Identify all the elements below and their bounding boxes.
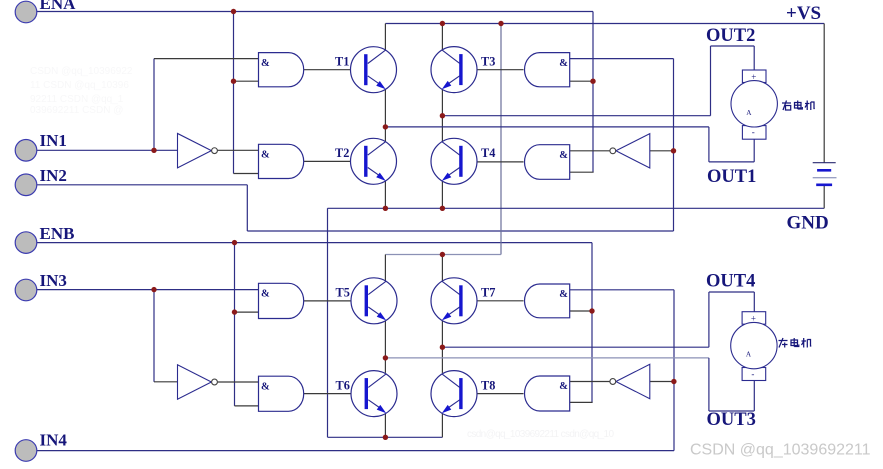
wire IN4 horizontal bbox=[37, 450, 675, 452]
wire OUT3 bottom jog bbox=[709, 410, 754, 412]
transistor T4 (NPN) bbox=[431, 138, 477, 184]
motor M1 (right motor) terminal - box bbox=[742, 126, 766, 140]
label M1 right-motor (Chinese characters) bbox=[782, 101, 815, 111]
battery VS plate 4 (short thick) bbox=[816, 184, 832, 187]
wire inverter V4 input stub bbox=[650, 381, 674, 383]
wire T6 emitter leg bbox=[384, 414, 386, 438]
junction ENB at gate U5 input bbox=[232, 309, 237, 314]
svg-text:IN1: IN1 bbox=[40, 131, 67, 150]
AND gate U2 bbox=[259, 144, 304, 178]
wire IN3 to inverter V3 input bbox=[154, 381, 178, 383]
wire gate U8 output to T8 base bbox=[461, 393, 524, 395]
svg-text:+VS: +VS bbox=[786, 3, 821, 24]
svg-text:IN3: IN3 bbox=[40, 271, 67, 290]
svg-text:&: & bbox=[559, 289, 568, 300]
input terminal IN3 bbox=[15, 279, 37, 301]
wire IN1 to gate U1 upper input bbox=[154, 58, 259, 60]
battery VS plate 1 (long) bbox=[813, 162, 836, 164]
svg-text:csdn@qq_1039692211 csdn@qq_10: csdn@qq_1039692211 csdn@qq_10 bbox=[467, 429, 614, 440]
wire IN2 to gate U3 upper input bbox=[570, 58, 674, 60]
svg-text:T4: T4 bbox=[481, 146, 495, 160]
transistor T6 (NPN) bbox=[351, 371, 397, 417]
AND gate U4 bbox=[525, 145, 570, 180]
wire inverter V4 output to gate U8 upper input bbox=[570, 381, 611, 383]
wire IN2 riser x=673.5 bbox=[673, 59, 675, 231]
svg-text:GND: GND bbox=[787, 212, 829, 233]
faint watermark upper-left bbox=[30, 66, 133, 116]
inverter V1 bbox=[178, 133, 218, 167]
wire bridge B ground rail y=437.3 bbox=[328, 436, 443, 438]
transistor T1 (NPN) bbox=[351, 47, 397, 93]
wire battery minus to GND rail bbox=[823, 185, 825, 209]
wire ENB turn into gate U8 lower input bbox=[570, 401, 593, 403]
wire GND rail y=208.3 bbox=[328, 207, 825, 209]
wire T2 emitter leg bbox=[384, 181, 386, 208]
junction T3 collector on +VS rail bbox=[440, 21, 445, 26]
wire node OUT3 column (T5 emitter to T6 collector) bbox=[384, 321, 386, 373]
input terminal ENA bbox=[15, 1, 37, 23]
svg-text:&: & bbox=[559, 58, 568, 69]
wire OUT3 drop bbox=[708, 358, 710, 411]
wire inverter V2 output to gate U4 upper input bbox=[570, 150, 611, 152]
junction T7 collector on bridge B rail bbox=[440, 252, 445, 257]
junction ENA tap bbox=[231, 9, 236, 14]
wire IN2 long horizontal y=231 bbox=[247, 230, 673, 232]
wire OUT3 rise to motor M2 minus bbox=[753, 379, 755, 411]
svg-text:OUT3: OUT3 bbox=[707, 410, 756, 430]
wire OUT4 horizontal y=347.2 bbox=[442, 346, 709, 348]
input terminal IN4 bbox=[15, 440, 37, 462]
battery VS plate 3 (long) bbox=[813, 177, 837, 179]
wire T1 collector leg bbox=[384, 24, 386, 51]
svg-text:-: - bbox=[751, 369, 754, 379]
wire bridge B supply rail y=254.5 bbox=[385, 254, 501, 256]
wire +VS drop to battery bbox=[823, 24, 825, 163]
svg-text:ENB: ENB bbox=[40, 224, 75, 243]
input terminal IN1 bbox=[15, 140, 37, 162]
junction IN3 tap bbox=[151, 287, 156, 292]
wire T3 collector leg bbox=[441, 24, 443, 51]
junction IN1 tap bbox=[151, 148, 156, 153]
wire gate U3 output to T3 base bbox=[461, 69, 524, 71]
wire ENA turn into gate U2 lower input bbox=[234, 173, 259, 175]
wire IN4 to gate U7 upper input bbox=[570, 289, 674, 291]
wire IN3 branch down x=154 bbox=[153, 290, 155, 382]
wire OUT1 drop bbox=[708, 127, 710, 162]
svg-text:T3: T3 bbox=[481, 54, 495, 68]
wire ENA turn into gate U4 lower input bbox=[570, 171, 594, 173]
transistor T5 (NPN) bbox=[351, 278, 397, 324]
svg-text:&: & bbox=[261, 381, 270, 392]
svg-text:T5: T5 bbox=[336, 286, 350, 300]
wire +VS feed to bridge B x=501 bbox=[500, 24, 502, 255]
transistor T7 (NPN) bbox=[431, 278, 477, 324]
svg-text:A: A bbox=[746, 351, 752, 359]
wire gate U5 output to T5 base bbox=[304, 300, 368, 302]
wire ENA horizontal rail bbox=[37, 11, 594, 13]
svg-text:92211 CSDN @qq_1: 92211 CSDN @qq_1 bbox=[30, 94, 124, 105]
wire ENA right drop x=593 bbox=[592, 12, 594, 173]
battery VS plate 2 (short thick) bbox=[817, 169, 831, 172]
inverter V3 bbox=[178, 365, 218, 399]
wire gate U4 output to T4 base bbox=[461, 161, 524, 163]
wire T8 emitter leg bbox=[441, 414, 443, 438]
wire IN2 drop bbox=[246, 185, 248, 231]
junction bridge B feed on +VS rail bbox=[498, 21, 503, 26]
svg-text:T2: T2 bbox=[335, 146, 349, 160]
svg-text:T6: T6 bbox=[336, 378, 350, 392]
junction T2 emitter on GND rail bbox=[383, 206, 388, 211]
svg-text:T1: T1 bbox=[335, 54, 349, 68]
AND gate U6 bbox=[259, 376, 304, 411]
faint watermark bottom strip bbox=[467, 429, 614, 440]
AND gate U3 bbox=[525, 53, 570, 87]
wire IN4 riser x=674 bbox=[673, 290, 675, 451]
junction ENB tap bbox=[232, 240, 237, 245]
motor M1 (right motor) terminal + box bbox=[742, 70, 766, 83]
junction ENB at gate U7 input bbox=[589, 308, 594, 313]
AND gate U8 bbox=[525, 376, 570, 411]
svg-text:T7: T7 bbox=[481, 286, 495, 300]
junction T6 emitter on bridge B ground rail bbox=[383, 435, 388, 440]
svg-text:ENA: ENA bbox=[40, 0, 77, 13]
wire gate U7 output to T7 base bbox=[461, 300, 524, 302]
svg-text:11 CSDN @qq_10396: 11 CSDN @qq_10396 bbox=[30, 80, 129, 91]
wire inverter V3 output to gate U6 upper input bbox=[218, 381, 259, 383]
junction OUT4 node bbox=[440, 345, 445, 350]
inverter V2 bbox=[610, 134, 650, 168]
wire GND feed to bridge B x=327.5 bbox=[327, 208, 329, 437]
svg-text:T8: T8 bbox=[481, 378, 495, 392]
wire IN1 horizontal bbox=[37, 149, 178, 151]
wire inverter V1 output to gate U2 upper input bbox=[218, 149, 259, 151]
junction IN4 at inverter V4 input bbox=[671, 379, 676, 384]
wire ENB stub to gate U5 lower input bbox=[235, 311, 259, 313]
wire OUT3 horizontal y=357.9 bbox=[385, 357, 709, 359]
svg-text:&: & bbox=[559, 381, 568, 392]
wire OUT4 top jog bbox=[709, 291, 754, 293]
wire OUT2 rise bbox=[710, 46, 712, 116]
wire ENA stub to gate U1 lower input bbox=[234, 80, 259, 82]
AND gate U1 bbox=[259, 53, 304, 87]
wire node OUT2 column (T3 emitter to T4 collector) bbox=[441, 89, 443, 141]
junction OUT1 node bbox=[383, 124, 388, 129]
wire OUT1 rise to motor M1 minus bbox=[753, 139, 755, 162]
svg-text:CSDN @qq_1039692211: CSDN @qq_1039692211 bbox=[690, 442, 871, 459]
svg-text:A: A bbox=[746, 109, 752, 117]
svg-text:&: & bbox=[559, 150, 568, 161]
junction T4 emitter on GND rail bbox=[440, 206, 445, 211]
wire ENA left drop x=233.5 bbox=[233, 12, 235, 174]
wire IN2 horizontal bbox=[37, 184, 248, 186]
transistor T2 (NPN) bbox=[351, 138, 397, 184]
wire node OUT4 column (T7 emitter to T8 collector) bbox=[441, 321, 443, 373]
junction OUT2 node bbox=[440, 113, 445, 118]
svg-text:&: & bbox=[261, 289, 270, 300]
wire OUT4 rise bbox=[708, 292, 710, 347]
junction ENA at gate U3 input bbox=[590, 79, 595, 84]
motor M2 (left motor) body bbox=[731, 322, 777, 368]
wire gate U1 output to T1 base bbox=[304, 69, 367, 71]
wire gate U2 output to T2 base bbox=[304, 160, 367, 162]
AND gate U7 bbox=[525, 284, 570, 318]
wire ENB turn into gate U6 lower input bbox=[235, 405, 259, 407]
wire +VS rail y=23.5 bbox=[385, 23, 824, 25]
wire T5 collector leg bbox=[384, 255, 386, 282]
input terminal ENB bbox=[15, 232, 37, 254]
svg-text:&: & bbox=[261, 58, 270, 69]
input terminal IN2 bbox=[15, 174, 37, 196]
wire OUT4 drop to motor M2 plus bbox=[753, 292, 755, 312]
label M2 left-motor (Chinese characters) bbox=[779, 338, 812, 348]
svg-text:-: - bbox=[752, 127, 755, 137]
wire OUT1 horizontal y=126.9 bbox=[385, 126, 709, 128]
wire node OUT1 column (T1 emitter to T2 collector) bbox=[384, 89, 386, 141]
svg-text:OUT4: OUT4 bbox=[706, 272, 755, 292]
motor M2 (left motor) terminal + box bbox=[742, 312, 766, 325]
wire ENB horizontal rail bbox=[37, 242, 593, 244]
wire T7 collector leg bbox=[441, 255, 443, 282]
wire ENB stub to gate U7 lower input bbox=[570, 310, 592, 312]
svg-text:CSDN @qq_10396922: CSDN @qq_10396922 bbox=[30, 66, 133, 77]
wire OUT2 horizontal y=115.7 bbox=[442, 115, 710, 117]
junction IN2 at inverter V2 input bbox=[671, 148, 676, 153]
AND gate U5 bbox=[259, 283, 304, 318]
transistor T3 (NPN) bbox=[431, 47, 477, 93]
wire OUT1 bottom jog bbox=[709, 161, 754, 163]
svg-text:OUT1: OUT1 bbox=[707, 167, 756, 187]
wire ENB left drop x=234.5 bbox=[234, 243, 236, 406]
inverter V4 bbox=[610, 364, 650, 398]
wire T4 emitter leg bbox=[441, 181, 443, 208]
svg-text:IN2: IN2 bbox=[40, 166, 67, 185]
svg-text:IN4: IN4 bbox=[40, 431, 68, 450]
wire IN1 branch up x=154 bbox=[153, 59, 155, 151]
junction OUT3 node bbox=[383, 355, 388, 360]
svg-text:039692211 CSDN @: 039692211 CSDN @ bbox=[30, 105, 123, 116]
wire OUT2 drop to motor M1 plus bbox=[753, 46, 755, 70]
junction ENA at gate U1 input bbox=[231, 79, 236, 84]
wire inverter V2 input stub bbox=[650, 150, 674, 152]
svg-text:&: & bbox=[261, 150, 270, 161]
transistor T8 (NPN) bbox=[431, 371, 477, 417]
wire ENB right drop x=592 bbox=[591, 243, 593, 403]
motor M1 (right motor) body bbox=[731, 81, 777, 127]
wire IN3 horizontal to gate U5 upper input bbox=[37, 289, 259, 291]
wire OUT2 top jog bbox=[711, 45, 755, 47]
wire ENA stub to gate U3 lower input bbox=[570, 80, 593, 82]
svg-text:OUT2: OUT2 bbox=[706, 26, 755, 46]
wire gate U6 output to T6 base bbox=[304, 393, 368, 395]
motor M2 (left motor) terminal - box bbox=[742, 368, 766, 381]
